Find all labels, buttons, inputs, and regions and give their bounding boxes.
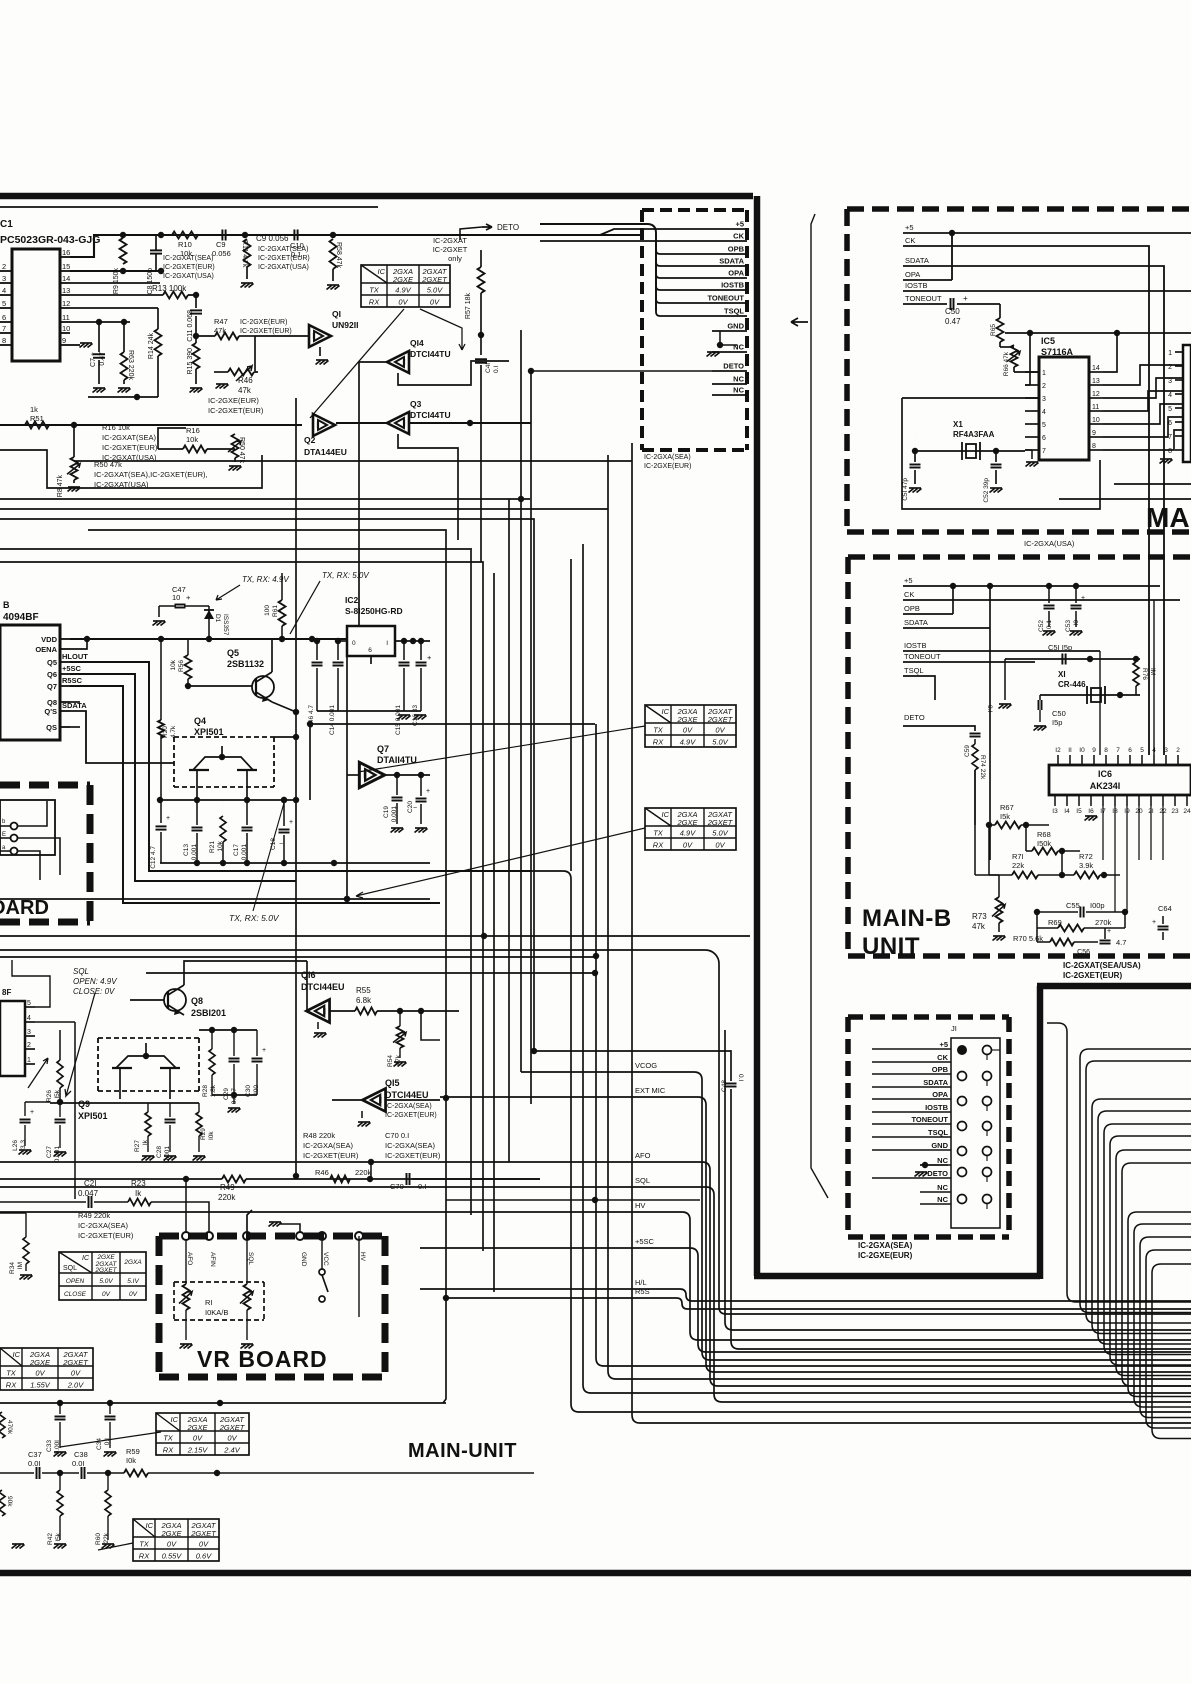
svg-text:CK: CK	[904, 590, 914, 599]
svg-text:6.8k: 6.8k	[356, 996, 372, 1005]
svg-text:3: 3	[27, 1029, 31, 1036]
svg-text:RX: RX	[653, 841, 664, 850]
svg-text:AFO: AFO	[186, 1252, 193, 1265]
svg-text:IM: IM	[1149, 668, 1156, 675]
svg-text:3.3: 3.3	[20, 1140, 27, 1149]
svg-text:C59: C59	[964, 745, 971, 757]
svg-text:2: 2	[1042, 383, 1046, 390]
svg-text:5.IV: 5.IV	[127, 1278, 139, 1285]
svg-text:R11 4.7k: R11 4.7k	[241, 240, 248, 268]
svg-text:TSQL: TSQL	[928, 1128, 948, 1137]
svg-text:R46: R46	[238, 376, 253, 385]
svg-text:IC-2GXET(EUR): IC-2GXET(EUR)	[78, 1231, 134, 1240]
svg-text:C28: C28	[156, 1146, 163, 1158]
svg-text:GND: GND	[727, 322, 744, 331]
svg-text:270k: 270k	[1095, 918, 1112, 927]
svg-text:C4I: C4I	[485, 363, 492, 373]
svg-text:TSQL: TSQL	[904, 666, 924, 675]
svg-text:12: 12	[1092, 391, 1100, 398]
svg-text:1.55V: 1.55V	[30, 1381, 51, 1390]
svg-text:C64: C64	[1158, 904, 1172, 913]
svg-text:R16 10k: R16 10k	[102, 423, 130, 432]
svg-text:0V: 0V	[430, 298, 440, 307]
svg-text:I50k: I50k	[1037, 839, 1051, 848]
svg-text:2GXE: 2GXE	[676, 715, 698, 724]
svg-text:47k: 47k	[972, 922, 986, 931]
svg-text:1k: 1k	[30, 405, 38, 414]
svg-text:R13 100k: R13 100k	[152, 284, 187, 293]
svg-text:C17: C17	[233, 844, 240, 856]
svg-text:VR BOARD: VR BOARD	[197, 1346, 328, 1372]
svg-text:CK: CK	[733, 232, 744, 241]
svg-text:2GXE: 2GXE	[392, 275, 414, 284]
svg-text:II: II	[1068, 747, 1072, 754]
svg-text:GND: GND	[300, 1252, 307, 1267]
svg-text:SQL: SQL	[63, 1265, 77, 1272]
svg-text:I3: I3	[1052, 808, 1058, 815]
svg-text:C33: C33	[46, 1440, 53, 1452]
svg-text:C13: C13	[183, 844, 190, 856]
svg-text:I5: I5	[1076, 808, 1082, 815]
svg-text:R7I: R7I	[1012, 852, 1024, 861]
svg-text:0V: 0V	[199, 1540, 209, 1549]
svg-text:2SBI201: 2SBI201	[191, 1008, 226, 1018]
svg-text:0.001: 0.001	[191, 844, 198, 861]
svg-text:+5: +5	[905, 223, 914, 232]
svg-text:+: +	[1152, 919, 1156, 926]
svg-text:13: 13	[1092, 378, 1100, 385]
svg-text:QI4: QI4	[410, 338, 424, 348]
svg-text:0V: 0V	[715, 726, 725, 735]
svg-text:9: 9	[1092, 747, 1096, 754]
svg-text:JI: JI	[951, 1024, 957, 1033]
svg-text:1: 1	[27, 1057, 31, 1064]
svg-text:0V: 0V	[398, 298, 408, 307]
svg-text:IC-2GXE(EUR): IC-2GXE(EUR)	[858, 1251, 913, 1260]
svg-text:3: 3	[1168, 378, 1172, 385]
svg-text:IC-2GXET(EUR): IC-2GXET(EUR)	[258, 255, 310, 262]
svg-text:I0k: I0k	[126, 1456, 136, 1465]
svg-text:2GXA: 2GXA	[123, 1259, 141, 1266]
svg-text:IC-2GXET: IC-2GXET	[433, 245, 468, 254]
svg-text:6: 6	[1168, 420, 1172, 427]
svg-text:I00p: I00p	[1090, 901, 1105, 910]
svg-text:OPA: OPA	[728, 269, 744, 278]
svg-text:2.4V: 2.4V	[223, 1446, 240, 1455]
svg-text:10k: 10k	[217, 840, 224, 851]
svg-text:NC: NC	[733, 375, 744, 384]
svg-text:R51: R51	[30, 414, 44, 423]
svg-text:6: 6	[1128, 747, 1132, 754]
svg-text:+5: +5	[904, 576, 913, 585]
svg-text:C52: C52	[1038, 620, 1045, 632]
svg-text:3.9k: 3.9k	[1079, 861, 1093, 870]
svg-text:2GXE: 2GXE	[676, 818, 698, 827]
svg-text:0.1: 0.1	[1046, 620, 1053, 629]
svg-text:7: 7	[2, 324, 6, 333]
svg-text:IC-2GXA(USA): IC-2GXA(USA)	[1024, 539, 1075, 548]
svg-text:0.I: 0.I	[737, 1074, 744, 1081]
svg-text:5.0V: 5.0V	[99, 1278, 113, 1285]
svg-text:AK234I: AK234I	[1090, 781, 1121, 791]
svg-text:IC: IC	[146, 1521, 154, 1530]
svg-text:C1: C1	[0, 219, 13, 230]
svg-text:0.00I: 0.00I	[54, 1440, 61, 1455]
svg-text:0.6V: 0.6V	[196, 1552, 212, 1561]
svg-text:0.47: 0.47	[99, 352, 106, 366]
svg-text:2.15V: 2.15V	[187, 1446, 209, 1455]
svg-text:DETO: DETO	[927, 1169, 948, 1178]
svg-text:AFO: AFO	[635, 1151, 651, 1160]
svg-text:RI: RI	[205, 1298, 213, 1307]
svg-text:SQL: SQL	[247, 1252, 254, 1265]
svg-text:14: 14	[1092, 365, 1100, 372]
svg-text:R55: R55	[356, 986, 371, 995]
svg-text:R34: R34	[9, 1262, 16, 1274]
svg-text:0.55V: 0.55V	[162, 1552, 183, 1561]
svg-text:C37: C37	[28, 1450, 42, 1459]
svg-text:C50: C50	[945, 307, 960, 316]
svg-text:SQL: SQL	[635, 1176, 650, 1185]
svg-text:TONEOUT: TONEOUT	[904, 652, 941, 661]
svg-text:5: 5	[27, 1000, 31, 1007]
svg-text:R65: R65	[990, 324, 997, 336]
svg-text:Q8: Q8	[47, 698, 57, 707]
svg-text:4094BF: 4094BF	[3, 612, 39, 623]
svg-text:10k: 10k	[186, 435, 198, 444]
svg-text:2GXE: 2GXE	[160, 1529, 182, 1538]
svg-text:2GXET: 2GXET	[219, 1423, 246, 1432]
svg-text:23: 23	[1171, 808, 1179, 815]
svg-text:R42: R42	[47, 1533, 54, 1545]
svg-text:OPA: OPA	[905, 270, 920, 279]
svg-text:8: 8	[2, 336, 6, 345]
svg-text:IC-2GXAT(SEA/USA): IC-2GXAT(SEA/USA)	[1063, 961, 1141, 970]
svg-text:2: 2	[1168, 364, 1172, 371]
svg-text:DTCI44EU: DTCI44EU	[385, 1090, 429, 1100]
svg-text:L26: L26	[12, 1140, 19, 1151]
svg-text:IC-2GXA(SEA): IC-2GXA(SEA)	[78, 1221, 129, 1230]
svg-text:470k: 470k	[6, 1420, 13, 1435]
svg-text:0.I: 0.I	[493, 366, 500, 373]
svg-text:Q4: Q4	[194, 716, 206, 726]
svg-text:0V: 0V	[35, 1369, 45, 1378]
svg-text:+5: +5	[939, 1040, 948, 1049]
svg-text:4.9V: 4.9V	[395, 286, 411, 295]
svg-text:TSQL: TSQL	[724, 307, 744, 316]
svg-text:15: 15	[62, 262, 70, 271]
svg-text:0.001: 0.001	[164, 1146, 171, 1163]
svg-text:C5I I5p: C5I I5p	[1048, 643, 1072, 652]
svg-text:Ik: Ik	[135, 1189, 142, 1198]
svg-text:NC: NC	[937, 1195, 948, 1204]
svg-text:QI6: QI6	[301, 970, 316, 980]
svg-text:R48 220k: R48 220k	[303, 1131, 335, 1140]
svg-text:R54: R54	[387, 1055, 394, 1067]
svg-text:11: 11	[62, 313, 70, 322]
svg-text:R46: R46	[315, 1168, 329, 1177]
svg-text:10: 10	[1092, 417, 1100, 424]
svg-text:6: 6	[2, 313, 6, 322]
svg-text:R66 47k: R66 47k	[1003, 351, 1010, 376]
svg-text:DETO: DETO	[497, 223, 519, 232]
svg-text:C9 0.056: C9 0.056	[256, 234, 289, 243]
svg-text:0V: 0V	[102, 1291, 111, 1298]
svg-text:OPEN: 4.9V: OPEN: 4.9V	[73, 977, 117, 986]
svg-text:2GXE: 2GXE	[186, 1423, 208, 1432]
svg-text:5: 5	[1168, 406, 1172, 413]
svg-text:C11 0.068: C11 0.068	[187, 310, 194, 342]
svg-text:IC-2GXAT(SEA): IC-2GXAT(SEA)	[163, 255, 213, 262]
svg-text:4: 4	[1042, 409, 1046, 416]
svg-text:7: 7	[1116, 747, 1120, 754]
svg-text:2GXET: 2GXET	[421, 275, 448, 284]
svg-text:NC: NC	[733, 386, 744, 395]
svg-text:E: E	[2, 832, 6, 838]
svg-text:EXT MIC: EXT MIC	[635, 1086, 666, 1095]
svg-text:+: +	[427, 653, 432, 662]
svg-text:8: 8	[1092, 443, 1096, 450]
svg-text:TX: TX	[6, 1369, 17, 1378]
svg-text:HLOUT: HLOUT	[62, 652, 88, 661]
svg-text:I4: I4	[1064, 808, 1070, 815]
svg-text:R9 150k: R9 150k	[113, 268, 120, 295]
svg-text:S-8I250HG-RD: S-8I250HG-RD	[345, 606, 403, 616]
svg-text:C52 39p: C52 39p	[983, 478, 990, 503]
svg-text:7: 7	[1042, 448, 1046, 455]
svg-text:22k: 22k	[1012, 861, 1024, 870]
svg-text:RX: RX	[139, 1552, 150, 1561]
svg-text:Q2: Q2	[304, 435, 316, 445]
svg-text:TX, RX: 5.0V: TX, RX: 5.0V	[229, 913, 280, 923]
svg-text:TX: TX	[369, 286, 380, 295]
svg-text:RF4A3FAA: RF4A3FAA	[953, 430, 995, 439]
svg-text:IC-2GXET(EUR): IC-2GXET(EUR)	[163, 264, 215, 271]
svg-text:IC-2GXA(SEA): IC-2GXA(SEA)	[303, 1141, 354, 1150]
svg-text:R68: R68	[1037, 830, 1051, 839]
svg-text:Q3: Q3	[410, 399, 422, 409]
svg-text:3: 3	[2, 274, 6, 283]
svg-text:TONEOUT: TONEOUT	[911, 1115, 948, 1124]
svg-text:ISS357: ISS357	[222, 614, 229, 636]
svg-text:3: 3	[1164, 747, 1168, 754]
svg-text:C5I 47p: C5I 47p	[902, 478, 909, 501]
svg-text:C19: C19	[383, 806, 390, 818]
svg-text:5: 5	[1042, 422, 1046, 429]
svg-text:CLOSE: CLOSE	[64, 1291, 87, 1298]
svg-text:I0KA/B: I0KA/B	[205, 1308, 228, 1317]
svg-text:HV: HV	[635, 1201, 645, 1210]
svg-text:0: 0	[352, 640, 356, 647]
svg-text:+5: +5	[735, 220, 744, 229]
svg-text:2: 2	[1176, 747, 1180, 754]
svg-text:R76: R76	[1141, 668, 1148, 680]
svg-text:4: 4	[2, 286, 6, 295]
svg-text:DETO: DETO	[723, 362, 744, 371]
svg-text:GND: GND	[931, 1141, 948, 1150]
svg-text:+: +	[963, 294, 968, 303]
svg-text:0V: 0V	[683, 726, 693, 735]
svg-text:IC-2GXET(EUR): IC-2GXET(EUR)	[385, 1112, 437, 1119]
svg-text:0.47: 0.47	[945, 317, 961, 326]
svg-text:+: +	[186, 593, 191, 602]
svg-text:I5k: I5k	[55, 1532, 62, 1541]
svg-text:SDATA: SDATA	[923, 1078, 948, 1087]
svg-text:IOSTB: IOSTB	[925, 1103, 949, 1112]
svg-text:TX, RX: 5.0V: TX, RX: 5.0V	[322, 571, 369, 580]
svg-text:47k: 47k	[238, 386, 252, 395]
svg-text:HV: HV	[359, 1252, 366, 1262]
svg-text:2GXET: 2GXET	[190, 1529, 217, 1538]
svg-text:I00: I00	[253, 1085, 260, 1094]
svg-text:IC-2GXET(EUR): IC-2GXET(EUR)	[385, 1151, 441, 1160]
svg-text:0V: 0V	[193, 1434, 203, 1443]
svg-text:Q7: Q7	[377, 744, 389, 754]
svg-text:2: 2	[2, 262, 6, 271]
svg-text:IC-2GXA(SEA): IC-2GXA(SEA)	[644, 454, 691, 461]
svg-text:IOSTB: IOSTB	[905, 281, 928, 290]
svg-text:OENA: OENA	[35, 645, 57, 654]
svg-text:X1: X1	[953, 420, 963, 429]
svg-text:I5k: I5k	[1000, 812, 1010, 821]
svg-text:14: 14	[62, 274, 70, 283]
svg-text:24: 24	[1183, 808, 1191, 815]
svg-text:IC: IC	[662, 707, 670, 716]
svg-text:2SB1132: 2SB1132	[227, 659, 264, 669]
svg-text:5.0V: 5.0V	[712, 829, 728, 838]
svg-text:MAIN: MAIN	[1146, 502, 1191, 533]
svg-text:XPI501: XPI501	[78, 1111, 108, 1121]
svg-text:R29: R29	[200, 1128, 207, 1140]
svg-text:C50: C50	[1052, 709, 1066, 718]
svg-text:C55: C55	[1066, 901, 1080, 910]
svg-text:IC-2GXAT(SEA),IC-2GXET(EUR),: IC-2GXAT(SEA),IC-2GXET(EUR),	[94, 470, 208, 479]
svg-text:NC: NC	[937, 1183, 948, 1192]
svg-text:TX: TX	[653, 829, 664, 838]
svg-text:C27: C27	[46, 1146, 53, 1158]
svg-text:IC: IC	[82, 1255, 90, 1262]
svg-text:OPB: OPB	[904, 604, 920, 613]
svg-text:Q8: Q8	[191, 996, 203, 1006]
svg-text:Q'S: Q'S	[44, 707, 57, 716]
svg-text:I5p: I5p	[1052, 718, 1062, 727]
svg-text:SQL: SQL	[73, 967, 89, 976]
svg-text:TX: TX	[653, 726, 664, 735]
svg-text:TONEOUT: TONEOUT	[707, 294, 744, 303]
svg-text:2GXET: 2GXET	[707, 715, 734, 724]
svg-text:TONEOUT: TONEOUT	[905, 294, 942, 303]
svg-text:0V: 0V	[683, 841, 693, 850]
svg-text:IC6: IC6	[1098, 769, 1112, 779]
svg-text:DTA144EU: DTA144EU	[304, 447, 347, 457]
svg-text:RX: RX	[6, 1381, 17, 1390]
svg-text:+: +	[262, 1047, 266, 1054]
svg-text:7: 7	[1168, 434, 1172, 441]
svg-text:C12 4.7: C12 4.7	[150, 846, 157, 869]
svg-text:5.0V: 5.0V	[712, 738, 728, 747]
svg-text:220k: 220k	[355, 1168, 372, 1177]
svg-text:IC-2GXET(EUR): IC-2GXET(EUR)	[240, 328, 292, 335]
svg-text:IC-2GXAT(SEA): IC-2GXAT(SEA)	[102, 433, 157, 442]
svg-text:0V: 0V	[129, 1291, 138, 1298]
svg-text:IOSTB: IOSTB	[721, 281, 745, 290]
svg-text:R67: R67	[1000, 803, 1014, 812]
svg-text:IC-2GXA(SEA): IC-2GXA(SEA)	[385, 1103, 432, 1110]
svg-text:2: 2	[27, 1042, 31, 1049]
svg-text:4.9V: 4.9V	[680, 829, 696, 838]
svg-text:1: 1	[1042, 370, 1046, 377]
svg-text:0.001: 0.001	[54, 1146, 61, 1163]
svg-text:4: 4	[1168, 392, 1172, 399]
svg-text:R50 47k: R50 47k	[238, 437, 245, 464]
svg-text:R26: R26	[46, 1090, 53, 1102]
svg-text:B: B	[3, 600, 10, 610]
svg-text:6: 6	[1042, 435, 1046, 442]
svg-text:C38: C38	[74, 1450, 88, 1459]
svg-text:R47: R47	[214, 317, 228, 326]
svg-text:16: 16	[62, 248, 70, 257]
svg-text:NC: NC	[733, 343, 744, 352]
svg-text:OPB: OPB	[728, 245, 745, 254]
svg-text:0V: 0V	[227, 1434, 237, 1443]
svg-text:1: 1	[1168, 350, 1172, 357]
svg-text:R56: R56	[178, 660, 185, 672]
svg-text:S7116A: S7116A	[1041, 347, 1074, 357]
svg-text:VCOG: VCOG	[635, 1061, 657, 1070]
svg-text:2GXET: 2GXET	[94, 1267, 117, 1274]
svg-text:IC-2GXA(SEA): IC-2GXA(SEA)	[385, 1141, 436, 1150]
svg-text:8F: 8F	[2, 988, 11, 997]
svg-text:SDATA: SDATA	[905, 256, 929, 265]
svg-text:VDD: VDD	[41, 635, 57, 644]
svg-text:+: +	[30, 1109, 34, 1116]
svg-text:5: 5	[2, 299, 6, 308]
svg-text:0.056: 0.056	[212, 249, 231, 258]
svg-text:10: 10	[62, 324, 70, 333]
svg-text:IC: IC	[171, 1415, 179, 1424]
svg-text:DTCI44TU: DTCI44TU	[410, 410, 451, 420]
svg-text:DTCI44TU: DTCI44TU	[410, 349, 451, 359]
svg-text:IC-2GXET(EUR): IC-2GXET(EUR)	[208, 406, 264, 415]
svg-text:RX: RX	[163, 1446, 174, 1455]
svg-text:XPI501: XPI501	[194, 727, 224, 737]
svg-text:Q7: Q7	[47, 682, 57, 691]
svg-text:2GXET: 2GXET	[707, 818, 734, 827]
svg-text:10: 10	[172, 593, 180, 602]
svg-text:C56: C56	[1077, 949, 1090, 956]
svg-text:+: +	[1107, 928, 1111, 935]
svg-text:only: only	[448, 254, 462, 263]
svg-text:UN92II: UN92II	[332, 320, 358, 330]
svg-text:R73: R73	[972, 912, 987, 921]
svg-text:9: 9	[62, 336, 66, 345]
svg-text:IC: IC	[662, 810, 670, 819]
svg-text:IM: IM	[17, 1262, 24, 1269]
svg-text:OPEN: OPEN	[66, 1278, 85, 1285]
svg-text:R59: R59	[126, 1447, 140, 1456]
svg-text:+: +	[426, 788, 430, 795]
svg-text:R74 22k: R74 22k	[979, 755, 986, 780]
svg-text:4.7: 4.7	[1116, 938, 1126, 947]
svg-text:47k: 47k	[214, 326, 226, 335]
svg-text:2GXET: 2GXET	[62, 1358, 89, 1367]
svg-text:3: 3	[1042, 396, 1046, 403]
svg-text:R8 47k: R8 47k	[57, 475, 64, 498]
svg-text:IC-2GXE(EUR): IC-2GXE(EUR)	[208, 396, 259, 405]
svg-text:C14 0.001: C14 0.001	[329, 705, 336, 735]
svg-text:5.0V: 5.0V	[427, 286, 443, 295]
svg-text:4: 4	[27, 1015, 31, 1022]
